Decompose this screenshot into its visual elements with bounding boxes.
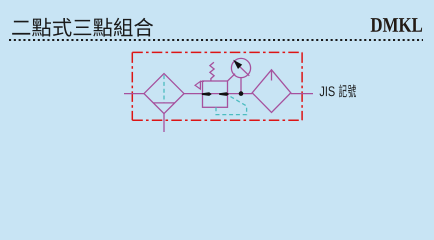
pressure gauge G1 needle head xyxy=(233,60,242,69)
gauge stem wire xyxy=(240,78,242,94)
regulator R1 adjustment arrowhead (open) xyxy=(195,81,200,89)
lubricator L1 drip line xyxy=(271,70,273,81)
pressure gauge G1 needle tail xyxy=(237,64,249,76)
title text 二點式三點組合 xyxy=(12,18,153,37)
junction node dot xyxy=(239,91,244,96)
regulator R1 flow arrow 1 xyxy=(202,92,212,96)
wire: inlet line xyxy=(124,93,144,95)
regulator R1 body (square) xyxy=(203,81,228,107)
label 記號 xyxy=(339,84,356,97)
wire: filter to regulator to junction to lubricator xyxy=(184,93,253,95)
regulator R1 adjustment arrow shaft xyxy=(200,80,204,82)
filter F1 sump line xyxy=(153,102,174,104)
regulator R1 spring xyxy=(210,62,214,81)
wire: outlet line xyxy=(291,93,313,95)
label JIS xyxy=(320,86,335,96)
DMKL logo text xyxy=(371,18,422,32)
filter F1 body (diamond) xyxy=(144,74,184,114)
regulator R1 flow arrow 2 xyxy=(219,92,229,96)
enclosure dash-dot boundary box xyxy=(132,52,302,120)
filter F1 drain line xyxy=(163,114,165,132)
gauge corner connector wire xyxy=(228,74,236,81)
dotted underline rule xyxy=(9,39,423,41)
lubricator L1 body (diamond) xyxy=(252,70,291,113)
filter F1 element (dashed) xyxy=(163,75,165,102)
regulator R1 pilot line (dashed) xyxy=(216,95,247,114)
pressure gauge G1 dial xyxy=(231,58,250,77)
